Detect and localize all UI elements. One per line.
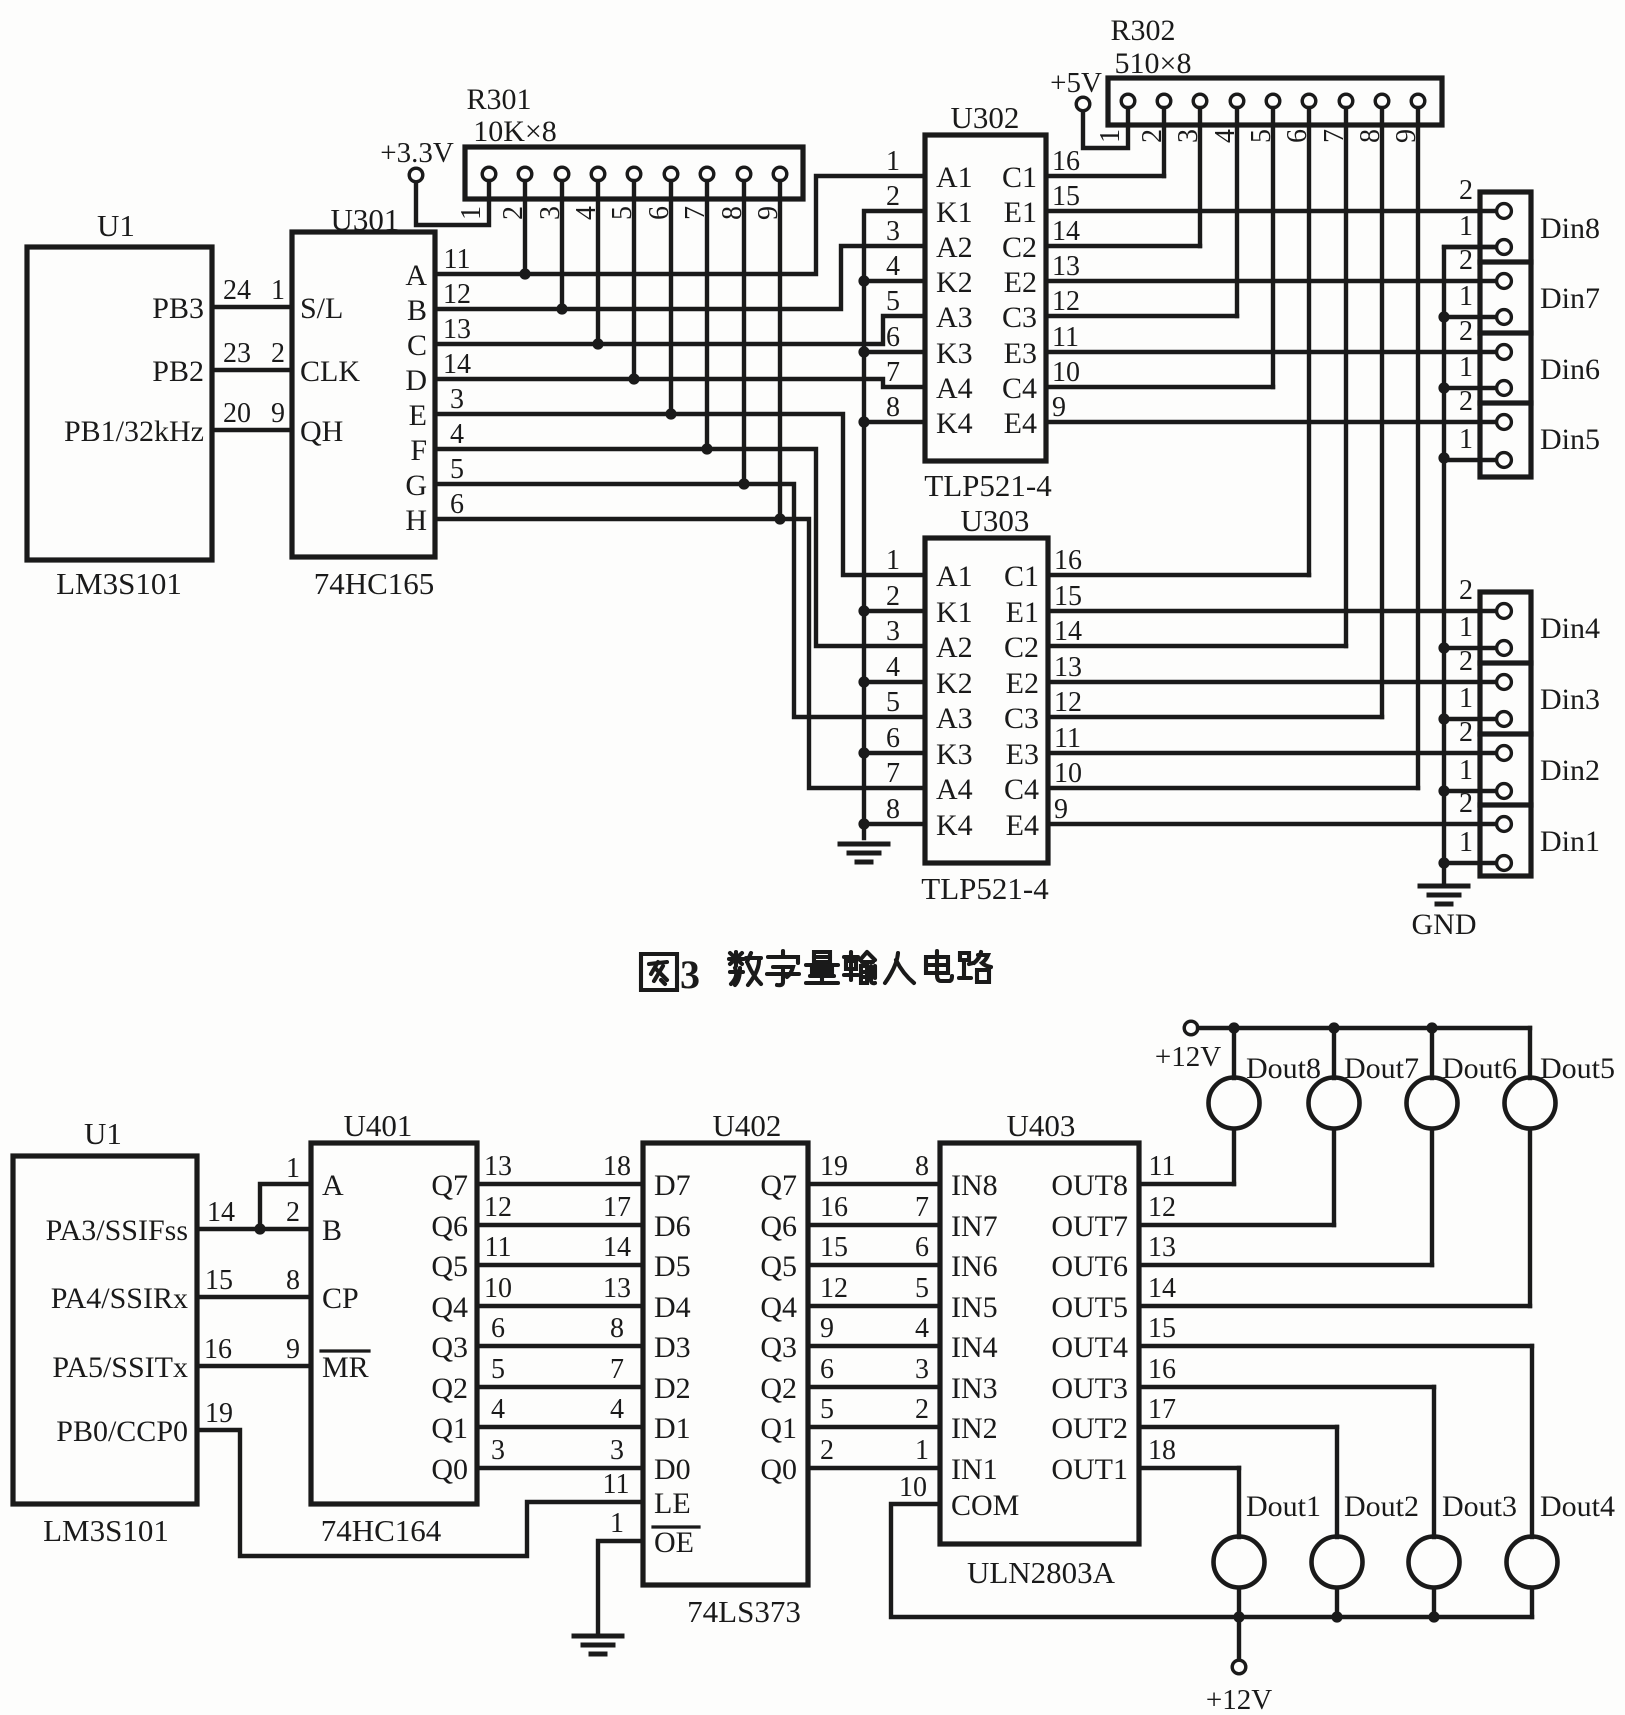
- pin number 8 (U302): [886, 392, 900, 423]
- pin number 7 (U403 IN7): [915, 1192, 929, 1223]
- svg-text:E2: E2: [1006, 667, 1039, 700]
- wire K bus from U302.K1 down to ground: [864, 211, 925, 838]
- pin number 2 (Din5): [1459, 386, 1473, 417]
- svg-text:U401: U401: [344, 1108, 413, 1143]
- pin label A1 (U303): [936, 560, 973, 593]
- wire net D : U301.14 to U302.A4: [435, 379, 925, 387]
- pin label Q0 (U401): [431, 1453, 468, 1486]
- svg-text:16: 16: [1054, 545, 1082, 576]
- pin number 7 (U402 D2): [610, 1354, 624, 1385]
- pin label Q2 (U401): [431, 1372, 468, 1405]
- svg-text:7: 7: [610, 1354, 624, 1385]
- pin label IN1 (U403): [951, 1453, 998, 1486]
- pin number 16 (U303): [1054, 545, 1082, 576]
- pin number 5 (U403 IN5): [915, 1273, 929, 1304]
- pin label G of U301: [405, 469, 427, 502]
- pin number 16 (U302): [1052, 146, 1080, 177]
- wire OUT4 to Dout4 lamp and bottom rail: [1139, 1346, 1532, 1617]
- pin number 14 (U302): [1052, 216, 1080, 247]
- leg R301 pin 2 down to row A: [523, 181, 527, 274]
- svg-text:A3: A3: [936, 702, 973, 735]
- svg-text:8: 8: [717, 206, 748, 220]
- svg-text:7: 7: [915, 1192, 929, 1223]
- svg-text:Din3: Din3: [1540, 683, 1600, 716]
- pin number 6 (R302, rotated): [1282, 129, 1313, 143]
- wire U303.C4 to R302 pin9: [1048, 786, 1418, 790]
- pin number 16 (U403 OUT3): [1148, 1354, 1176, 1385]
- wire U302.E2 to Din7 pin2: [1046, 279, 1504, 283]
- svg-text:13: 13: [1054, 652, 1082, 683]
- pin label PB1/32kHz: [64, 415, 204, 448]
- svg-text:3: 3: [1173, 129, 1204, 143]
- pin label LE (U402): [654, 1487, 691, 1520]
- svg-text:D7: D7: [654, 1169, 691, 1202]
- pin number 6 (U302): [886, 322, 900, 353]
- pin number 14 (U403 OUT5): [1148, 1273, 1176, 1304]
- leg R301 pin 9 down to row H: [778, 181, 782, 519]
- pin number 8 (R302, rotated): [1355, 129, 1386, 143]
- pin number 13 (U302): [1052, 251, 1080, 282]
- pin label Q6 (U402): [760, 1210, 797, 1243]
- svg-text:3: 3: [886, 616, 900, 647]
- label +12V (top): [1155, 1041, 1221, 1073]
- svg-text:17: 17: [603, 1192, 631, 1223]
- svg-text:G: G: [405, 469, 427, 502]
- pin number 14 (U402 D5): [603, 1232, 631, 1263]
- wire U401.Q1 to U402.D1: [477, 1425, 643, 1429]
- junction K bus / U302 stub y=422: [858, 416, 869, 427]
- wire U401.Q3 to U402.D3: [477, 1344, 643, 1348]
- pin number 1 (Din5): [1459, 424, 1473, 455]
- pin number 1 (U402 OE): [610, 1508, 624, 1539]
- pin number 1 (Din2): [1459, 755, 1473, 786]
- svg-text:PB1/32kHz: PB1/32kHz: [64, 415, 204, 448]
- wire Din pin1 stub y=863 to GND bus (bottom): [1444, 861, 1504, 865]
- label U401: [344, 1108, 413, 1143]
- label Dout3: [1442, 1490, 1517, 1523]
- pin number 3 (U302): [886, 216, 900, 247]
- wire U303 K stub y=611: [864, 609, 925, 613]
- pin label D6 (U402): [654, 1210, 691, 1243]
- svg-text:E1: E1: [1006, 596, 1039, 629]
- wire U302.C4 to R302 pin5: [1046, 385, 1273, 389]
- svg-text:7: 7: [886, 758, 900, 789]
- pin number 15 (U402 Q5): [820, 1232, 848, 1263]
- svg-text:8: 8: [286, 1265, 300, 1296]
- pin number 2 (U303): [886, 581, 900, 612]
- wire U303.C2 to R302 pin7: [1048, 644, 1346, 648]
- pin label Q0 (U402): [760, 1453, 797, 1486]
- pin number 18 (U403 OUT1): [1148, 1435, 1176, 1466]
- wire net H : U301.6 to U303.A4: [435, 519, 925, 788]
- contact circle top Din group y=388: [1497, 381, 1512, 396]
- label Din1: [1540, 825, 1600, 858]
- pin number 6 (U401 Q3): [491, 1313, 505, 1344]
- pin number 15 (U302): [1052, 181, 1080, 212]
- svg-text:3: 3: [610, 1435, 624, 1466]
- pin number 3 (U301 E): [450, 384, 464, 415]
- svg-text:Dout4: Dout4: [1540, 1490, 1615, 1523]
- pin label IN8 (U403): [951, 1169, 998, 1202]
- pin number 2 (U302): [886, 181, 900, 212]
- leg R302 pin 8 down to collector row y=717: [1380, 108, 1384, 717]
- junction R301 pin 3 / row B: [556, 303, 567, 314]
- svg-text:18: 18: [603, 1151, 631, 1182]
- svg-text:C3: C3: [1002, 301, 1037, 334]
- pin number 2 (Din1): [1459, 788, 1473, 819]
- svg-text:14: 14: [443, 349, 471, 380]
- svg-text:OUT8: OUT8: [1051, 1169, 1128, 1202]
- contact circle bottom Din group y=719: [1497, 712, 1512, 727]
- junction GND bus y=648 (bottom): [1438, 642, 1449, 653]
- pin label D2 (U402): [654, 1372, 691, 1405]
- IC U1 (LM3S101) box, top circuit: [27, 247, 212, 560]
- pin label E2 (U302): [1004, 266, 1037, 299]
- svg-text:OUT2: OUT2: [1051, 1412, 1128, 1445]
- junction GND bus y=317: [1438, 311, 1449, 322]
- svg-text:2: 2: [286, 1197, 300, 1228]
- wire U401.Q5 to U402.D5: [477, 1263, 643, 1267]
- svg-text:F: F: [410, 434, 427, 467]
- label Dout4: [1540, 1490, 1615, 1523]
- label Din2: [1540, 754, 1600, 787]
- pin label C of U301: [407, 329, 427, 362]
- svg-text:QH: QH: [300, 415, 343, 448]
- svg-text:A2: A2: [936, 231, 973, 264]
- svg-text:2: 2: [1137, 129, 1168, 143]
- pin number 12 (U403 OUT7): [1148, 1192, 1176, 1223]
- label U302: [951, 100, 1020, 135]
- pin number 1 (U401 A): [286, 1153, 300, 1184]
- wire Din pin1 stub y=247 to GND bus: [1444, 245, 1504, 249]
- svg-text:15: 15: [820, 1232, 848, 1263]
- pin number 2 (Din3): [1459, 646, 1473, 677]
- value label 74HC164: [321, 1513, 442, 1548]
- pin number 10 (U403 COM): [899, 1472, 927, 1503]
- contact circle bottom Din group y=791: [1497, 784, 1512, 799]
- pin number 3 (U402 D0): [610, 1435, 624, 1466]
- svg-text:D6: D6: [654, 1210, 691, 1243]
- svg-text:OUT4: OUT4: [1051, 1331, 1128, 1364]
- pin label MR with overline (U401): [321, 1351, 369, 1384]
- pin number 10 (U302): [1052, 357, 1080, 388]
- svg-text:Q4: Q4: [760, 1291, 797, 1324]
- label Dout1: [1246, 1490, 1321, 1523]
- svg-text:8: 8: [886, 392, 900, 423]
- pin label D4 (U402): [654, 1291, 691, 1324]
- wire U401.Q7 to U402.D7: [477, 1182, 643, 1186]
- pin label Q2 (U402): [760, 1372, 797, 1405]
- terminal +3.3V: [409, 168, 423, 182]
- junction bottom rail / Dout1: [1233, 1611, 1244, 1622]
- svg-text:24: 24: [223, 275, 251, 306]
- pin number 17 (U403 OUT2): [1148, 1394, 1176, 1425]
- pin label C4 (U303): [1004, 773, 1039, 806]
- svg-text:OUT3: OUT3: [1051, 1372, 1128, 1405]
- pin label CLK: [300, 355, 360, 388]
- wire PA4 to U401 CP: [197, 1295, 311, 1299]
- pin label C2 (U302): [1002, 231, 1037, 264]
- pin number 17 (U402 D6): [603, 1192, 631, 1223]
- IC U402 (74LS373) box: [643, 1143, 808, 1585]
- pin label D of U301: [405, 364, 427, 397]
- contact circle bottom Din group y=648: [1497, 641, 1512, 656]
- pin number 2 (U403 IN2): [915, 1394, 929, 1425]
- svg-text:Q2: Q2: [760, 1372, 797, 1405]
- svg-text:14: 14: [1052, 216, 1080, 247]
- pin label OUT4 (U403): [1051, 1331, 1128, 1364]
- contact circle bottom Din group y=682: [1497, 675, 1512, 690]
- svg-text:1: 1: [1459, 211, 1473, 242]
- wire OUT5 to Dout5 lamp and +12V rail: [1139, 1028, 1530, 1306]
- junction K bus / U303 stub y=682: [858, 676, 869, 687]
- svg-text:Q3: Q3: [760, 1331, 797, 1364]
- svg-text:C4: C4: [1004, 773, 1039, 806]
- contact circle top Din group y=211: [1497, 204, 1512, 219]
- svg-text:Dout8: Dout8: [1246, 1052, 1321, 1085]
- svg-text:6: 6: [644, 206, 675, 220]
- label Dout2: [1344, 1490, 1419, 1523]
- pin label E4 (U302): [1004, 407, 1037, 440]
- svg-text:PA4/SSIRx: PA4/SSIRx: [51, 1282, 188, 1315]
- pin number 2 (U402 Q0): [820, 1435, 834, 1466]
- pin label B of U301: [407, 294, 427, 327]
- pin number 7 (U302): [886, 357, 900, 388]
- value label 74LS373: [687, 1594, 801, 1629]
- pin label D7 (U402): [654, 1169, 691, 1202]
- pin number 12 (U303): [1054, 687, 1082, 718]
- terminal +12V (bottom): [1232, 1660, 1246, 1674]
- svg-text:TLP521-4: TLP521-4: [924, 468, 1052, 503]
- value label TLP521-4 (U302): [924, 468, 1052, 503]
- pin label C3 (U302): [1002, 301, 1037, 334]
- svg-text:C1: C1: [1004, 560, 1039, 593]
- pin number 11 (U402 LE): [603, 1469, 630, 1500]
- svg-text:MR: MR: [322, 1351, 369, 1384]
- leg R302 pin 3 down to collector row y=246: [1198, 108, 1202, 246]
- label +3.3V: [380, 137, 454, 169]
- pin number 5 (U302): [886, 286, 900, 317]
- junction GND bus y=458: [1438, 452, 1449, 463]
- svg-text:5: 5: [886, 687, 900, 718]
- svg-text:15: 15: [205, 1265, 233, 1296]
- junction bottom rail / Dout3: [1428, 1611, 1439, 1622]
- wire U303 K stub y=753: [864, 751, 925, 755]
- wire OUT1 to Dout1 lamp and bottom rail: [1139, 1468, 1239, 1617]
- leg R302 pin 4 down to collector row y=316: [1235, 108, 1239, 316]
- svg-text:K2: K2: [936, 667, 973, 700]
- junction top rail / Dout8: [1228, 1022, 1239, 1033]
- optocoupler U302 (TLP521-4) box: [925, 135, 1046, 461]
- svg-text:6: 6: [820, 1354, 834, 1385]
- svg-text:18: 18: [1148, 1435, 1176, 1466]
- svg-text:13: 13: [1148, 1232, 1176, 1263]
- pin number 3 (U401 Q0): [491, 1435, 505, 1466]
- pin number 9 (U302): [1052, 392, 1066, 423]
- svg-text:4: 4: [610, 1394, 624, 1425]
- svg-text:9: 9: [286, 1334, 300, 1365]
- svg-text:E1: E1: [1004, 196, 1037, 229]
- leg R302 pin 9 down to collector row y=788: [1416, 108, 1420, 788]
- svg-text:Dout6: Dout6: [1442, 1052, 1517, 1085]
- svg-text:4: 4: [886, 652, 900, 683]
- pin label C1 (U302): [1002, 161, 1037, 194]
- leg R301 pin 6 down to row E: [669, 181, 673, 414]
- wire U1 PB1 to U301 QH: [212, 428, 292, 432]
- pin number 4 (R302, rotated): [1210, 129, 1241, 143]
- pin number 1 (Din7): [1459, 281, 1473, 312]
- svg-text:13: 13: [484, 1151, 512, 1182]
- svg-text:IN8: IN8: [951, 1169, 998, 1202]
- pin label OUT5 (U403): [1051, 1291, 1128, 1324]
- pin label D1 (U402): [654, 1412, 691, 1445]
- contact circle top Din group y=422: [1497, 415, 1512, 430]
- pin number 4 (U401 Q1): [491, 1394, 505, 1425]
- svg-text:8: 8: [886, 794, 900, 825]
- svg-text:23: 23: [223, 338, 251, 369]
- pin number 11 (U403 OUT8): [1149, 1151, 1176, 1182]
- pin number 5 (U401 Q2): [491, 1354, 505, 1385]
- pin label K1 (U302): [936, 196, 973, 229]
- svg-text:COM: COM: [951, 1489, 1019, 1522]
- junction K bus / U302 stub y=281: [858, 275, 869, 286]
- svg-text:4: 4: [1210, 129, 1241, 143]
- pin number 7 (R301, rotated): [680, 206, 711, 220]
- pin label Q6 (U401): [431, 1210, 468, 1243]
- wire Din pin1 stub y=791 to GND bus (bottom): [1444, 789, 1504, 793]
- pin label OUT1 (U403): [1051, 1453, 1128, 1486]
- pin number 4 (U303): [886, 652, 900, 683]
- pin label D5 (U402): [654, 1250, 691, 1283]
- value label 10K x 8: [473, 115, 557, 148]
- svg-text:D5: D5: [654, 1250, 691, 1283]
- pin label A3 (U302): [936, 301, 973, 334]
- pin number 6 (U303): [886, 723, 900, 754]
- pin number 8 (U403 IN8): [915, 1151, 929, 1182]
- svg-text:2: 2: [1459, 575, 1473, 606]
- svg-text:Q6: Q6: [760, 1210, 797, 1243]
- pin label E3 (U303): [1006, 738, 1039, 771]
- wire U303.E3 to Din2 pin2: [1048, 751, 1504, 755]
- svg-text:PA3/SSIFss: PA3/SSIFss: [46, 1214, 188, 1247]
- ground symbol GND (connector bus): [1420, 886, 1468, 904]
- svg-text:5: 5: [1246, 129, 1277, 143]
- junction GND bus y=388: [1438, 382, 1449, 393]
- pin label E2 (U303): [1006, 667, 1039, 700]
- lamp Dout3: [1409, 1537, 1460, 1588]
- svg-text:2: 2: [1459, 646, 1473, 677]
- svg-text:C2: C2: [1002, 231, 1037, 264]
- pin numbers 23 / 2: [223, 338, 285, 369]
- pin label OUT6 (U403): [1051, 1250, 1128, 1283]
- value label TLP521-4 (U303): [921, 871, 1049, 906]
- pin label Q3 (U402): [760, 1331, 797, 1364]
- junction top rail / Dout7: [1328, 1022, 1339, 1033]
- pin number 11 (U401 Q5): [485, 1232, 512, 1263]
- svg-text:C2: C2: [1004, 631, 1039, 664]
- pin numbers 20 / 9: [223, 398, 285, 429]
- svg-text:Q5: Q5: [760, 1250, 797, 1283]
- pin number 9 (U402 Q3): [820, 1313, 834, 1344]
- svg-text:9: 9: [1054, 794, 1068, 825]
- wire U303.C1 to R302 pin6: [1048, 573, 1309, 577]
- wire U302 K stub y=422: [864, 420, 925, 424]
- wire U402.Q6 to U403.IN7: [808, 1223, 940, 1227]
- svg-text:+5V: +5V: [1050, 67, 1102, 99]
- svg-text:2: 2: [1459, 245, 1473, 276]
- svg-text:16: 16: [204, 1334, 232, 1365]
- pin number 19: [205, 1398, 233, 1429]
- svg-text:74LS373: 74LS373: [687, 1594, 801, 1629]
- wire PA3 to U401 B and A (with junction): [197, 1184, 311, 1235]
- pin label K4 (U303): [936, 809, 973, 842]
- pin number 2 (Din6): [1459, 316, 1473, 347]
- pin label A2 (U303): [936, 631, 973, 664]
- svg-text:Q1: Q1: [431, 1412, 468, 1445]
- junction R301 pin 7 / row F: [701, 443, 712, 454]
- svg-text:Din1: Din1: [1540, 825, 1600, 858]
- pin number 3 (R302, rotated): [1173, 129, 1204, 143]
- svg-text:U1: U1: [97, 208, 135, 243]
- svg-text:2: 2: [820, 1435, 834, 1466]
- label +5V: [1050, 67, 1102, 99]
- svg-text:6: 6: [886, 723, 900, 754]
- wire U1 PB2 to U301 CLK: [212, 368, 292, 372]
- pin number 9 (R302, rotated): [1391, 129, 1422, 143]
- leg R302 pin 6 down to collector row y=575: [1307, 108, 1311, 575]
- svg-text:16: 16: [1052, 146, 1080, 177]
- svg-text:H: H: [405, 504, 427, 537]
- svg-text:6: 6: [915, 1232, 929, 1263]
- svg-text:11: 11: [1149, 1151, 1176, 1182]
- svg-text:2: 2: [271, 338, 285, 369]
- svg-text:C4: C4: [1002, 372, 1037, 405]
- svg-text:D4: D4: [654, 1291, 691, 1324]
- pin label K2 (U302): [936, 266, 973, 299]
- svg-text:K2: K2: [936, 266, 973, 299]
- pin number 14 (U303): [1054, 616, 1082, 647]
- pin number 1 (U303): [886, 545, 900, 576]
- connector group Din4-Din1 outline: [1480, 592, 1531, 876]
- optocoupler U303 (TLP521-4) box: [925, 538, 1048, 863]
- pin label E3 (U302): [1004, 337, 1037, 370]
- svg-text:3: 3: [450, 384, 464, 415]
- wire U303.E2 to Din3 pin2: [1048, 680, 1504, 684]
- svg-text:12: 12: [1148, 1192, 1176, 1223]
- pin label C4 (U302): [1002, 372, 1037, 405]
- svg-text:A: A: [405, 259, 427, 292]
- svg-text:4: 4: [915, 1313, 929, 1344]
- value label 510 x 8: [1115, 47, 1192, 80]
- svg-text:PB2: PB2: [152, 355, 204, 388]
- pin label D3 (U402): [654, 1331, 691, 1364]
- svg-text:20: 20: [223, 398, 251, 429]
- lamp Dout1: [1214, 1537, 1265, 1588]
- pin number 1 (U302): [886, 146, 900, 177]
- svg-text:A3: A3: [936, 301, 973, 334]
- wire U302 K stub y=352: [864, 350, 925, 354]
- svg-text:4: 4: [886, 251, 900, 282]
- svg-text:+3.3V: +3.3V: [380, 137, 454, 169]
- pin number 5 (R301, rotated): [607, 206, 638, 220]
- svg-text:IN1: IN1: [951, 1453, 998, 1486]
- junction K bus / U303 stub y=611: [858, 605, 869, 616]
- pin number 2 (Din2): [1459, 717, 1473, 748]
- wire U402 OE to ground: [598, 1541, 643, 1634]
- pin number 1 (Din6): [1459, 352, 1473, 383]
- pin number 19 (U402 Q7): [820, 1151, 848, 1182]
- lamp Dout8: [1209, 1078, 1260, 1129]
